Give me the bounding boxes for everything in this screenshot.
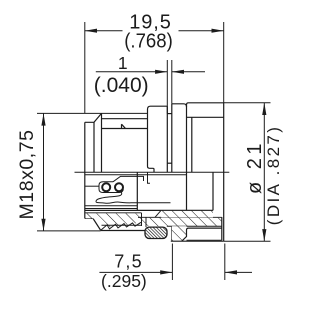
insert vertical mirror	[148, 172, 151, 183]
dim 1 dimension line	[96, 60, 205, 114]
svg-text:(DIA .827): (DIA .827)	[264, 125, 283, 226]
chamfer edge verticals	[93, 122, 95, 172]
svg-text:(.040): (.040)	[94, 74, 149, 97]
contact pocket	[99, 182, 123, 193]
hatch between cavity and shell	[161, 211, 213, 218]
insert mid line	[85, 185, 99, 187]
svg-text:1: 1	[118, 53, 128, 73]
lower shell hatch top edge	[138, 216, 222, 218]
o-ring	[145, 227, 167, 238]
thread relief line top	[102, 128, 148, 130]
contact socket right	[115, 183, 123, 191]
shell bottom hatch band	[142, 218, 222, 226]
body: thread front face vertical	[84, 122, 86, 218]
cavity right wall	[212, 172, 214, 210]
cavity bottom line	[85, 209, 213, 211]
insert lower line	[85, 205, 138, 207]
thread start detail	[121, 124, 123, 128]
dim M18 arrowheads	[41, 113, 45, 125]
spring squiggle	[96, 192, 171, 203]
coupling ring rounded element	[148, 106, 168, 172]
svg-text:M18x0,75: M18x0,75	[16, 129, 38, 219]
section: thread relief line bottom	[85, 212, 142, 214]
thread bottom chamfer	[85, 218, 101, 230]
groove left wall	[145, 217, 147, 227]
shell hatch bottom edge	[167, 225, 222, 227]
big body inner bore line	[187, 116, 224, 118]
groove step diagonal	[155, 210, 161, 217]
dim 19,5 arrowheads	[85, 29, 97, 33]
big body top edge	[187, 103, 224, 241]
thread top chamfer	[85, 113, 102, 122]
flange lip hatch	[172, 226, 187, 241]
dim 7,5 arrowheads	[160, 270, 172, 274]
rear groove right wall	[221, 217, 223, 240]
thread root line top	[102, 118, 148, 120]
insert top line	[85, 174, 187, 176]
face ring inner edge	[167, 162, 172, 164]
face ring verticals	[166, 106, 168, 172]
bottom edge of flange	[171, 240, 224, 242]
dim 19,5 dimension line	[85, 22, 224, 113]
dim dia21 arrowheads	[262, 103, 266, 115]
section: thread teeth sawtooth	[101, 222, 141, 230]
inner bore vertical	[191, 117, 193, 172]
big body left edge	[186, 105, 188, 211]
front body ring top	[172, 104, 187, 107]
center axis line	[75, 171, 230, 173]
pocket ramp to ledge	[113, 176, 144, 181]
dim 7,5 dimension line	[99, 244, 252, 281]
section: thread hatch band	[86, 213, 142, 228]
svg-text:(.295): (.295)	[101, 271, 147, 291]
svg-text:7,5: 7,5	[114, 252, 143, 272]
dim M18x0,75 leaders	[37, 113, 148, 230]
contact socket left	[102, 183, 110, 191]
face ring step	[167, 113, 172, 115]
dim dia21 leaders	[224, 103, 271, 242]
rear groove bottom	[187, 239, 222, 241]
svg-text:ø 21: ø 21	[244, 140, 266, 194]
dim 1 arrowheads	[155, 70, 167, 74]
section: thread root line bottom	[102, 224, 142, 226]
insert lower line 2	[85, 208, 138, 210]
svg-text:(.768): (.768)	[124, 31, 173, 53]
hatch band right bound	[141, 213, 143, 226]
flange lip left edge lower	[171, 226, 173, 241]
rear groove outline	[182, 228, 222, 241]
insert boundary vertical	[136, 172, 138, 210]
section: thread face bottom	[101, 230, 146, 232]
